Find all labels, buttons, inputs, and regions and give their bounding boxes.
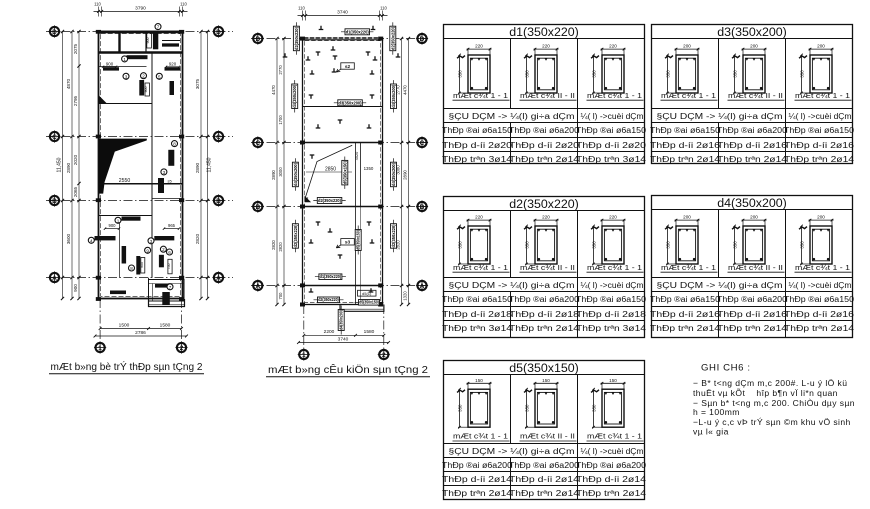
svg-text:mÆt c¾t II - II: mÆt c¾t II - II: [520, 263, 575, 272]
svg-text:220: 220: [475, 215, 483, 220]
svg-text:GHI CH6 :: GHI CH6 :: [701, 363, 751, 374]
svg-text:ThÐp trªn 2ø14: ThÐp trªn 2ø14: [650, 155, 721, 164]
svg-text:150: 150: [475, 378, 483, 383]
svg-text:C: C: [420, 140, 425, 147]
beam label d1 top: [341, 29, 373, 35]
svg-text:2200: 2200: [324, 329, 335, 335]
svg-text:D: D: [420, 36, 425, 43]
svg-text:ThÐp ®ai ø6a200: ThÐp ®ai ø6a200: [576, 461, 647, 470]
svg-text:§ÇU DÇM -> ¼(l) gi÷a dÇm: §ÇU DÇM -> ¼(l) gi÷a dÇm: [449, 281, 575, 290]
building outline walls: [99, 32, 183, 299]
svg-text:ThÐp trªn 2ø14: ThÐp trªn 2ø14: [650, 324, 721, 333]
svg-text:C: C: [255, 140, 260, 147]
svg-text:4470: 4470: [403, 85, 408, 95]
svg-text:900: 900: [146, 38, 150, 44]
svg-text:§ÇU DÇM -> ¼(l) gi÷a dÇm: §ÇU DÇM -> ¼(l) gi÷a dÇm: [657, 112, 783, 121]
plan2 stair diagonal: [305, 145, 352, 199]
svg-text:350: 350: [666, 70, 671, 78]
svg-text:A: A: [255, 283, 260, 290]
beam label d2 bottom: [314, 297, 344, 303]
detail panel d5 d5(350x150): [442, 361, 647, 500]
svg-text:3600: 3600: [66, 233, 71, 244]
svg-text:2795: 2795: [73, 95, 78, 106]
svg-text:d1(350x220): d1(350x220): [509, 25, 579, 39]
plan2 top beam band: [303, 37, 383, 40]
svg-text:350: 350: [525, 70, 530, 78]
svg-text:ThÐp trªn 2ø14: ThÐp trªn 2ø14: [509, 155, 580, 164]
svg-text:2: 2: [382, 352, 386, 359]
rebar bars lower rooms: [99, 215, 153, 217]
detail panel d3 d3(350x200): [650, 25, 855, 165]
svg-text:ThÐp d-íi 2ø14: ThÐp d-íi 2ø14: [576, 475, 647, 484]
svg-text:3000: 3000: [278, 167, 283, 177]
svg-text:ThÐp d-íi 2ø16: ThÐp d-íi 2ø16: [717, 310, 787, 319]
svg-text:200: 200: [683, 44, 691, 49]
svg-text:ThÐp d-íi 2ø20: ThÐp d-íi 2ø20: [576, 141, 647, 150]
svg-text:d2(350x220): d2(350x220): [391, 224, 396, 248]
beam label d1 bottom: [315, 274, 346, 280]
svg-text:mÆt c¾t 1 - 1: mÆt c¾t 1 - 1: [587, 432, 642, 441]
svg-text:1: 1: [117, 218, 120, 223]
svg-text:3790: 3790: [135, 5, 146, 11]
svg-text:ThÐp trªn 2ø14: ThÐp trªn 2ø14: [717, 155, 788, 164]
svg-text:d2(350x220): d2(350x220): [318, 297, 339, 302]
svg-text:350: 350: [592, 404, 597, 412]
svg-text:220: 220: [542, 215, 550, 220]
slab mark s3: [341, 239, 355, 245]
svg-text:A: A: [52, 275, 57, 282]
beam label side lower right: [391, 220, 397, 252]
svg-text:3740: 3740: [338, 336, 349, 342]
svg-text:220: 220: [475, 44, 483, 49]
svg-text:C: C: [52, 134, 57, 141]
svg-text:B: B: [52, 198, 57, 205]
svg-text:ThÐp trªn 2ø14: ThÐp trªn 2ø14: [509, 324, 580, 333]
svg-text:ThÐp ®ai ø6a150: ThÐp ®ai ø6a150: [442, 295, 513, 304]
svg-text:d2(350x220): d2(350x220): [509, 197, 579, 211]
svg-text:ThÐp trªn 3ø14: ThÐp trªn 3ø14: [576, 155, 647, 164]
beam label d5 center: [342, 157, 348, 189]
grid axis C: [46, 136, 233, 138]
detail panel d4 d4(350x200): [650, 196, 855, 338]
right dimension chains: [200, 32, 202, 299]
top dimension 110/3740/110: [298, 15, 388, 17]
svg-text:200: 200: [750, 44, 758, 49]
plan2 internal beams: [303, 106, 383, 108]
svg-text:ThÐp trªn 2ø14: ThÐp trªn 2ø14: [576, 489, 647, 498]
svg-text:900: 900: [73, 284, 78, 292]
svg-text:2890: 2890: [66, 162, 71, 173]
internal walls: [99, 31, 183, 33]
svg-text:mÆt c¾t 1 - 1: mÆt c¾t 1 - 1: [661, 91, 716, 100]
plan2 columns: [300, 37, 305, 41]
grid axis B: [46, 200, 233, 202]
svg-text:2770: 2770: [278, 65, 283, 75]
svg-text:§ÇU DÇM -> ¼(l) gi÷a dÇm: §ÇU DÇM -> ¼(l) gi÷a dÇm: [449, 447, 575, 456]
bottom dimensions: [100, 328, 181, 330]
svg-text:mÆt c¾t II - II: mÆt c¾t II - II: [520, 91, 575, 100]
svg-text:ThÐp trªn 3ø14: ThÐp trªn 3ø14: [442, 155, 513, 164]
plan2 building outline: [303, 39, 383, 305]
svg-text:D: D: [255, 36, 260, 43]
svg-text:350: 350: [733, 241, 738, 249]
svg-text:mÆt c¾t 1 - 1: mÆt c¾t 1 - 1: [453, 263, 508, 272]
svg-text:150: 150: [542, 378, 550, 383]
svg-text:110: 110: [180, 2, 187, 7]
svg-text:d2(350x220): d2(350x220): [293, 224, 298, 248]
svg-text:1580: 1580: [160, 322, 171, 328]
svg-text:900: 900: [144, 87, 148, 93]
svg-text:11,450: 11,450: [207, 157, 213, 172]
svg-text:ThÐp ®ai ø6a200: ThÐp ®ai ø6a200: [717, 126, 788, 135]
svg-text:thuËt vµ kÕt hîp b¶n vÏ li*: thuËt vµ kÕt hîp b¶n vÏ li*n quan: [693, 388, 838, 398]
svg-text:ThÐp ®ai ø6a150: ThÐp ®ai ø6a150: [442, 126, 513, 135]
svg-text:1580: 1580: [364, 329, 375, 335]
svg-text:200: 200: [683, 215, 691, 220]
beam label d2 left: [293, 22, 299, 54]
svg-text:§ÇU DÇM -> ¼(l) gi÷a dÇm: §ÇU DÇM -> ¼(l) gi÷a dÇm: [449, 112, 575, 121]
svg-text:920: 920: [169, 61, 177, 66]
svg-text:d5(350x150): d5(350x150): [359, 300, 379, 305]
svg-text:ThÐp ®ai ø6a150: ThÐp ®ai ø6a150: [784, 295, 855, 304]
svg-text:d4(350x200): d4(350x200): [717, 196, 787, 210]
middle floor plan: mat bang cau kien san tang 2: [251, 6, 430, 377]
svg-text:ThÐp d-íi 2ø18: ThÐp d-íi 2ø18: [442, 310, 512, 319]
svg-text:−L-u ý c,c vÞ trÝ sµn ©m khu v: −L-u ý c,c vÞ trÝ sµn ©m khu vÖ sinh: [693, 417, 851, 427]
beam label d5 bottom: [355, 300, 384, 306]
svg-text:ThÐp d-íi 2ø14: ThÐp d-íi 2ø14: [442, 475, 513, 484]
svg-text:3: 3: [150, 239, 153, 244]
svg-text:2820: 2820: [195, 233, 200, 244]
svg-text:s2: s2: [345, 64, 351, 70]
svg-text:ThÐp ®ai ø6a200: ThÐp ®ai ø6a200: [509, 461, 580, 470]
svg-text:1350: 1350: [364, 166, 374, 171]
svg-text:200: 200: [750, 215, 758, 220]
svg-text:965: 965: [168, 223, 176, 228]
svg-text:2820: 2820: [271, 240, 276, 250]
svg-text:ThÐp d-íi 2ø20: ThÐp d-íi 2ø20: [442, 141, 513, 150]
svg-text:2075: 2075: [73, 43, 78, 54]
svg-text:350: 350: [525, 404, 530, 412]
svg-text:9: 9: [146, 248, 149, 253]
svg-text:d4(350x200): d4(350x200): [391, 84, 396, 108]
beam label d3: [334, 100, 366, 106]
svg-text:2: 2: [162, 247, 165, 252]
rebar bars mid rooms: [103, 67, 119, 70]
slab rebar tees: [319, 26, 324, 30]
svg-text:2065: 2065: [73, 186, 78, 197]
svg-text:2890: 2890: [195, 162, 200, 173]
svg-text:ThÐp ®ai ø6a150: ThÐp ®ai ø6a150: [650, 295, 721, 304]
svg-text:d4(350x200): d4(350x200): [292, 84, 297, 108]
svg-text:4: 4: [90, 238, 93, 243]
svg-text:2: 2: [142, 74, 145, 79]
svg-text:ThÐp trªn 3ø14: ThÐp trªn 3ø14: [442, 324, 513, 333]
svg-text:ThÐp d-íi 2ø16: ThÐp d-íi 2ø16: [717, 141, 787, 150]
svg-text:mÆt c¾t 1 - 1: mÆt c¾t 1 - 1: [453, 432, 508, 441]
svg-text:d2(350x220): d2(350x220): [390, 26, 395, 50]
svg-text:2786: 2786: [135, 330, 146, 336]
svg-text:d4(350x200): d4(350x200): [293, 162, 298, 186]
left dimension chains: [62, 32, 64, 299]
svg-text:s3: s3: [345, 240, 351, 246]
beam label d4 left: [292, 80, 298, 112]
beam label d4b right: [391, 158, 397, 190]
rebar bars top room: [127, 55, 148, 59]
svg-text:2020: 2020: [73, 154, 78, 165]
svg-text:d3(350x200): d3(350x200): [339, 100, 363, 105]
svg-text:110: 110: [380, 6, 387, 11]
svg-text:ThÐp ®ai ø6a150: ThÐp ®ai ø6a150: [784, 126, 855, 135]
grid axis A: [46, 277, 233, 279]
plan2 right dimension chains: [401, 39, 403, 305]
grid axis D (plan 2): [251, 38, 428, 40]
svg-text:1700: 1700: [278, 115, 283, 125]
svg-text:700: 700: [278, 292, 283, 300]
svg-text:8: 8: [130, 266, 133, 271]
svg-text:150: 150: [609, 378, 617, 383]
beam label d4b left: [292, 158, 298, 190]
svg-text:2890: 2890: [403, 170, 408, 180]
svg-text:ThÐp ®ai ø6a200: ThÐp ®ai ø6a200: [509, 295, 580, 304]
svg-text:350: 350: [666, 241, 671, 249]
svg-text:d2(350x220): d2(350x220): [318, 198, 342, 203]
beam label side lower left: [292, 220, 298, 252]
svg-text:h = 100mm: h = 100mm: [693, 407, 740, 417]
plan2 left dimension chains: [276, 39, 278, 305]
svg-text:ThÐp ®ai ø6a150: ThÐp ®ai ø6a150: [576, 295, 647, 304]
svg-text:350: 350: [525, 241, 530, 249]
svg-text:d5(350x150): d5(350x150): [509, 361, 579, 375]
svg-text:mÆt b»ng bè trÝ thÐp sµn tÇng: mÆt b»ng bè trÝ thÐp sµn tÇng 2: [51, 360, 203, 373]
svg-text:1: 1: [98, 345, 102, 352]
svg-text:¼( l) ->cuèi dÇm: ¼( l) ->cuèi dÇm: [789, 112, 852, 121]
svg-text:2: 2: [180, 345, 184, 352]
svg-text:3075: 3075: [195, 78, 200, 89]
svg-text:11,450: 11,450: [57, 157, 63, 172]
svg-text:d2(350x220): d2(350x220): [294, 26, 299, 50]
svg-text:350: 350: [733, 70, 738, 78]
svg-text:C: C: [216, 134, 221, 141]
svg-text:3: 3: [125, 74, 128, 79]
svg-text:750: 750: [167, 264, 171, 270]
svg-text:d3(350x200): d3(350x200): [717, 25, 787, 39]
svg-text:¼( l) ->cuèi dÇm: ¼( l) ->cuèi dÇm: [789, 281, 852, 290]
svg-text:ThÐp d-íi 2ø20: ThÐp d-íi 2ø20: [509, 141, 580, 150]
svg-text:mÆt c¾t 1 - 1: mÆt c¾t 1 - 1: [587, 263, 642, 272]
beam label d2 right: [390, 22, 396, 54]
svg-text:ThÐp trªn 3ø14: ThÐp trªn 3ø14: [576, 324, 647, 333]
svg-text:200: 200: [817, 215, 825, 220]
svg-text:4520: 4520: [355, 152, 359, 160]
stair dark wedge: [99, 139, 147, 194]
svg-text:d5(350x150): d5(350x150): [342, 161, 347, 185]
svg-text:ThÐp trªn 2ø14: ThÐp trªn 2ø14: [784, 324, 855, 333]
svg-text:A: A: [420, 283, 425, 290]
svg-text:2550: 2550: [119, 178, 131, 184]
detail panel d1 d1(350x220): [442, 25, 647, 165]
svg-text:220: 220: [542, 44, 550, 49]
grid axis A (plan 2): [251, 285, 428, 287]
svg-text:7: 7: [157, 25, 160, 30]
svg-text:ThÐp d-íi 2ø16: ThÐp d-íi 2ø16: [650, 141, 720, 150]
label +3.400: [358, 290, 377, 296]
svg-text:mÆt c¾t 1 - 1: mÆt c¾t 1 - 1: [661, 263, 716, 272]
svg-text:A: A: [216, 275, 221, 282]
svg-text:ThÐp d-íi 2ø16: ThÐp d-íi 2ø16: [650, 310, 720, 319]
beam label d5 on beam: [355, 226, 361, 255]
svg-text:1320: 1320: [403, 291, 408, 301]
svg-text:B: B: [216, 198, 221, 205]
svg-text:d1(350x220): d1(350x220): [320, 274, 342, 279]
notes block GHI CHU: [693, 363, 855, 437]
columns: [96, 30, 101, 34]
svg-text:1: 1: [123, 57, 126, 62]
svg-text:− B* t<ng dÇm m,c 200#. L-u ý: − B* t<ng dÇm m,c 200#. L-u ý lÖ kü: [693, 378, 847, 388]
svg-text:900: 900: [109, 223, 117, 228]
plan2 bottom grid axes: [303, 305, 305, 349]
svg-text:¼( l) ->cuèi dÇm: ¼( l) ->cuèi dÇm: [581, 447, 644, 456]
left floor plan: mat bang bo tri thep san tang 2: [46, 2, 233, 374]
svg-text:d5(350x150): d5(350x150): [356, 230, 361, 250]
svg-text:ThÐp d-íi 2ø16: ThÐp d-íi 2ø16: [784, 141, 854, 150]
svg-text:¼( l) ->cuèi dÇm: ¼( l) ->cuèi dÇm: [581, 281, 644, 290]
svg-text:vµ l« gia: vµ l« gia: [693, 427, 729, 437]
grid axis C (plan 2): [251, 142, 428, 144]
svg-text:6: 6: [168, 250, 171, 255]
svg-text:mÆt c¾t 1 - 1: mÆt c¾t 1 - 1: [587, 91, 642, 100]
svg-text:900: 900: [140, 262, 144, 268]
svg-text:B: B: [420, 204, 425, 211]
bottom grid axes 1 and 2: [99, 299, 101, 342]
grid axis D: [46, 31, 233, 33]
beam label d2b: [313, 198, 345, 204]
svg-text:ThÐp d-íi 2ø14: ThÐp d-íi 2ø14: [509, 475, 580, 484]
svg-text:ThÐp ®ai ø6a200: ThÐp ®ai ø6a200: [509, 126, 580, 135]
svg-text:ThÐp d-íi 2ø18: ThÐp d-íi 2ø18: [509, 310, 579, 319]
svg-text:3: 3: [163, 170, 166, 175]
svg-text:mÆt c¾t 1 - 1: mÆt c¾t 1 - 1: [795, 263, 850, 272]
svg-text:mÆt c¾t II - II: mÆt c¾t II - II: [728, 91, 783, 100]
svg-text:1: 1: [302, 352, 306, 359]
top dimension 110/3790/110: [94, 10, 188, 12]
svg-text:ThÐp d-íi 2ø16: ThÐp d-íi 2ø16: [784, 310, 854, 319]
svg-text:mÆt c¾t II - II: mÆt c¾t II - II: [728, 263, 783, 272]
svg-text:ThÐp trªn 2ø14: ThÐp trªn 2ø14: [509, 489, 580, 498]
svg-text:220: 220: [609, 44, 617, 49]
svg-text:ThÐp trªn 2ø14: ThÐp trªn 2ø14: [442, 489, 513, 498]
svg-text:ThÐp trªn 2ø14: ThÐp trªn 2ø14: [784, 155, 855, 164]
svg-text:mÆt c¾t 1 - 1: mÆt c¾t 1 - 1: [453, 91, 508, 100]
slab mark s2: [341, 63, 355, 69]
svg-text:d1(350x220): d1(350x220): [346, 29, 370, 34]
svg-text:5: 5: [158, 74, 161, 79]
svg-text:200: 200: [817, 44, 825, 49]
svg-text:900: 900: [106, 61, 114, 66]
svg-text:4870: 4870: [66, 78, 71, 89]
beam label d4 right: [391, 80, 397, 112]
svg-text:8: 8: [173, 142, 176, 147]
bathroom box bottom right: [149, 280, 185, 302]
svg-text:ThÐp ®ai ø6a200: ThÐp ®ai ø6a200: [717, 295, 788, 304]
svg-text:110: 110: [94, 2, 101, 7]
svg-text:2850: 2850: [325, 166, 336, 172]
svg-text:mÆt c¾t II - II: mÆt c¾t II - II: [520, 432, 575, 441]
svg-text:220: 220: [609, 215, 617, 220]
svg-text:350: 350: [592, 70, 597, 78]
svg-text:3740: 3740: [337, 9, 348, 15]
svg-text:D: D: [52, 29, 57, 36]
rebar bars right-middle rooms: [168, 150, 174, 166]
svg-text:350: 350: [592, 241, 597, 249]
svg-text:§ÇU DÇM -> ¼(l) gi÷a dÇm: §ÇU DÇM -> ¼(l) gi÷a dÇm: [657, 281, 783, 290]
svg-text:350: 350: [458, 70, 463, 78]
svg-text:110: 110: [298, 6, 305, 11]
grid axis B (plan 2): [251, 206, 428, 208]
svg-text:B: B: [255, 204, 260, 211]
detail panel d2 d2(350x220): [442, 197, 647, 338]
svg-text:mÆt c¾t 1 - 1: mÆt c¾t 1 - 1: [795, 91, 850, 100]
svg-text:d4(350x200): d4(350x200): [391, 162, 396, 186]
svg-text:ThÐp ®ai ø6a150: ThÐp ®ai ø6a150: [650, 126, 721, 135]
svg-text:350: 350: [458, 404, 463, 412]
svg-text:ThÐp ®ai ø6a200: ThÐp ®ai ø6a200: [442, 461, 513, 470]
svg-text:4470: 4470: [271, 85, 276, 95]
svg-text:ThÐp ®ai ø6a150: ThÐp ®ai ø6a150: [576, 126, 647, 135]
plan2 bottom dimensions: [304, 334, 384, 336]
svg-text:ThÐp d-íi 2ø18: ThÐp d-íi 2ø18: [576, 310, 646, 319]
svg-text:350: 350: [458, 241, 463, 249]
svg-text:350: 350: [800, 241, 805, 249]
svg-text:7: 7: [169, 285, 172, 290]
beam label d4 bottom vertical: [338, 306, 344, 335]
svg-text:2820: 2820: [278, 242, 283, 252]
svg-text:d4(350x200): d4(350x200): [339, 310, 344, 330]
svg-text:ThÐp trªn 2ø14: ThÐp trªn 2ø14: [717, 324, 788, 333]
svg-text:D: D: [216, 29, 221, 36]
svg-text:350: 350: [800, 70, 805, 78]
svg-text:¼( l) ->cuèi dÇm: ¼( l) ->cuèi dÇm: [581, 112, 644, 121]
plan2 bottom step: [340, 305, 384, 312]
svg-text:mÆt b»ng cÊu kiÖn sµn tÇng 2: mÆt b»ng cÊu kiÖn sµn tÇng 2: [268, 363, 428, 376]
bottom step extension: [149, 299, 185, 307]
svg-text:2890: 2890: [271, 170, 276, 180]
svg-text:1500: 1500: [119, 322, 130, 328]
